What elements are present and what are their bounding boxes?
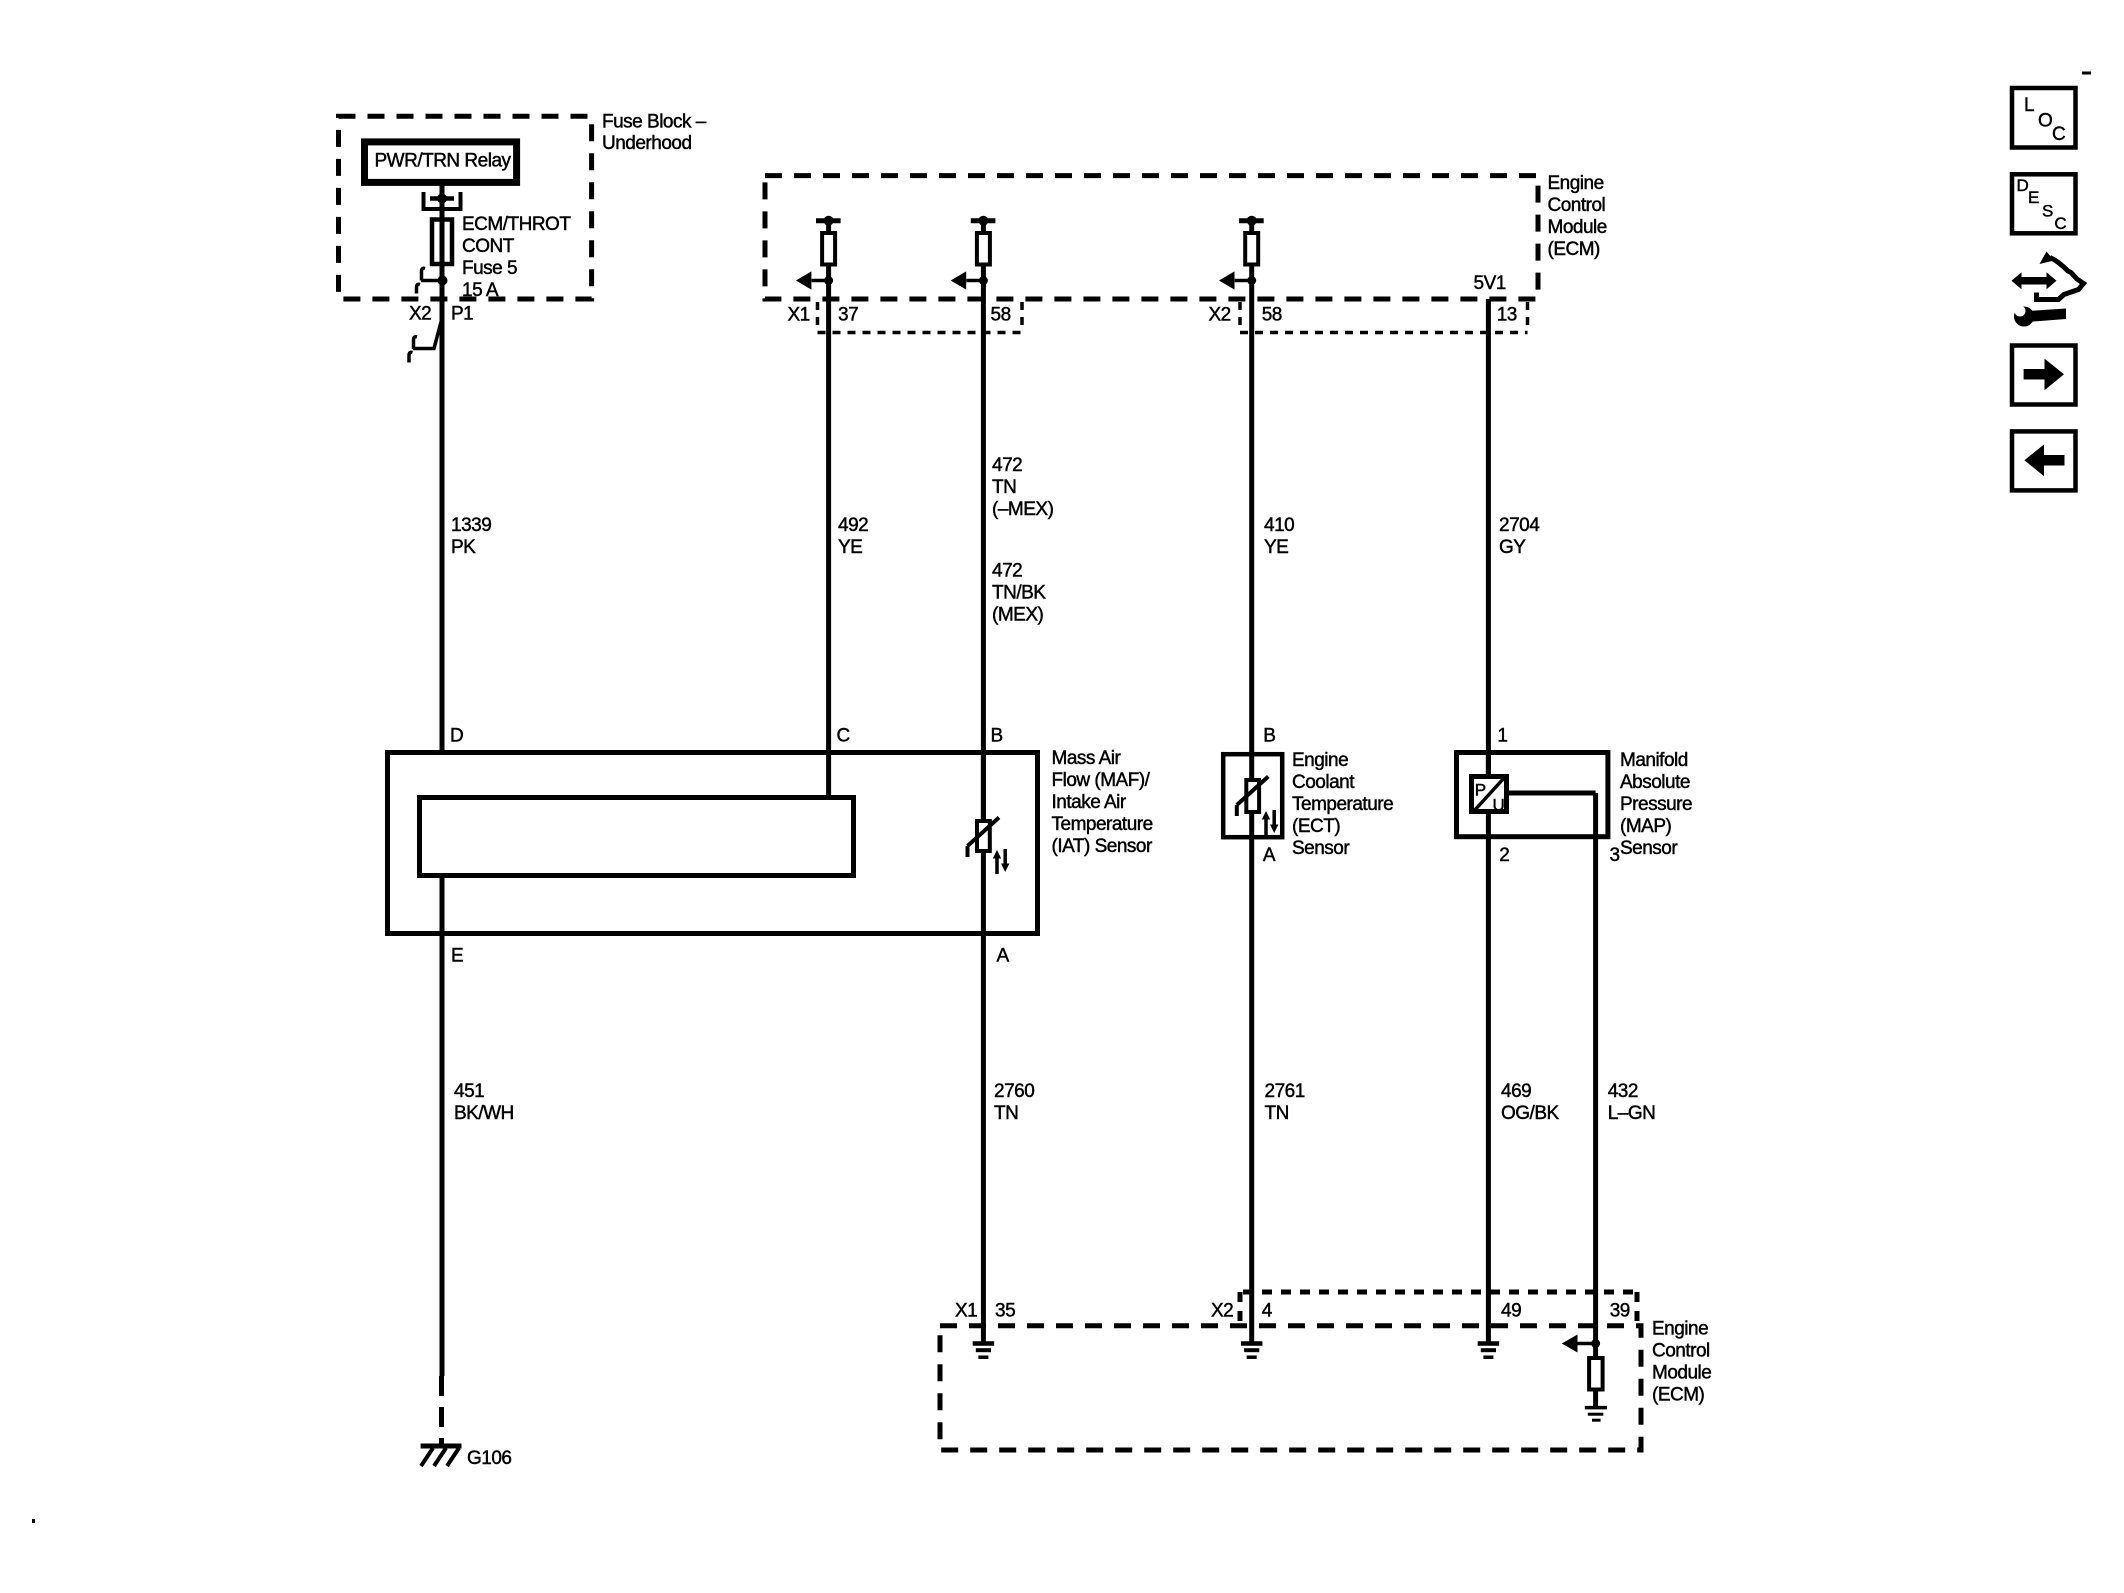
svg-text:Pressure: Pressure xyxy=(1620,794,1692,815)
svg-text:Module: Module xyxy=(1652,1363,1711,1384)
svg-text:Control: Control xyxy=(1548,195,1606,216)
svg-text:2704: 2704 xyxy=(1499,515,1540,536)
svg-text:Underhood: Underhood xyxy=(602,133,692,154)
svg-text:Flow (MAF)/: Flow (MAF)/ xyxy=(1052,770,1151,791)
svg-text:X1: X1 xyxy=(955,1301,977,1322)
svg-text:OG/BK: OG/BK xyxy=(1501,1103,1560,1124)
svg-text:Temperature: Temperature xyxy=(1052,814,1153,835)
wire 472 TN upper xyxy=(981,299,986,822)
svg-text:Sensor: Sensor xyxy=(1292,838,1350,859)
svg-text:(ECM): (ECM) xyxy=(1548,239,1601,260)
svg-text:L: L xyxy=(2024,95,2035,116)
svg-text:Engine: Engine xyxy=(1548,173,1604,194)
MAF inner connector bar xyxy=(420,798,854,876)
svg-text:Temperature: Temperature xyxy=(1292,794,1393,815)
svg-text:D: D xyxy=(2017,176,2029,195)
connector strip X1 under ECM xyxy=(816,302,820,331)
svg-text:S: S xyxy=(2042,202,2053,221)
fuse block underhood dashed box xyxy=(339,116,592,299)
ground at pin 4 xyxy=(1241,1341,1263,1346)
connector branch at fuse block exit xyxy=(421,279,442,283)
wire B inside MAF xyxy=(981,752,986,1343)
icon left arrow box xyxy=(2012,431,2076,490)
svg-text:2761: 2761 xyxy=(1265,1081,1305,1102)
svg-text:X2: X2 xyxy=(409,304,431,325)
svg-text:49: 49 xyxy=(1501,1301,1521,1322)
svg-text:Control: Control xyxy=(1652,1341,1710,1362)
connector hook upper at X2/P1 xyxy=(414,337,418,349)
svg-text:CONT: CONT xyxy=(462,236,515,257)
MAF/IAT sensor outer box xyxy=(388,753,1038,934)
ECM driver coil pin 58 X1 xyxy=(971,218,996,223)
svg-text:PK: PK xyxy=(451,537,476,558)
svg-text:YE: YE xyxy=(1264,537,1288,558)
svg-text:U: U xyxy=(1493,796,1505,815)
relay terminal bracket xyxy=(422,192,426,209)
icon double arrow wrench xyxy=(2020,277,2047,285)
svg-text:Fuse Block –: Fuse Block – xyxy=(602,112,707,133)
wire 492 YE xyxy=(826,299,831,798)
svg-text:15 A: 15 A xyxy=(462,280,499,301)
svg-text:(–MEX): (–MEX) xyxy=(992,499,1054,520)
svg-text:3: 3 xyxy=(1610,845,1620,866)
svg-text:Sensor: Sensor xyxy=(1620,838,1678,859)
svg-text:P1: P1 xyxy=(451,304,473,325)
MAP P/U transducer xyxy=(1472,777,1507,812)
connector hook lower xyxy=(417,284,421,293)
svg-text:YE: YE xyxy=(838,537,862,558)
svg-text:E: E xyxy=(2028,188,2039,207)
connector hook lower at X2/P1 xyxy=(409,352,413,362)
ECM driver coil pin 58 X2 xyxy=(1239,218,1264,223)
svg-text:472: 472 xyxy=(992,561,1022,582)
svg-text:C: C xyxy=(837,726,850,747)
svg-text:492: 492 xyxy=(838,515,868,536)
IAT up/down arrows xyxy=(995,857,999,874)
ground at pin 35 xyxy=(973,1341,995,1346)
svg-text:58: 58 xyxy=(991,305,1011,326)
relay PWR/TRN Relay xyxy=(365,142,517,183)
icon LOC box xyxy=(2012,88,2076,148)
ground below resistor xyxy=(1593,1389,1598,1406)
svg-text:G106: G106 xyxy=(467,1448,511,1469)
svg-text:Engine: Engine xyxy=(1292,750,1348,771)
svg-text:Mass Air: Mass Air xyxy=(1052,748,1122,769)
svg-text:Engine: Engine xyxy=(1652,1319,1708,1340)
svg-text:A: A xyxy=(997,946,1010,967)
svg-text:Manifold: Manifold xyxy=(1620,750,1688,771)
svg-text:B: B xyxy=(991,726,1003,747)
svg-text:37: 37 xyxy=(838,305,858,326)
svg-text:432: 432 xyxy=(1608,1081,1638,1102)
connector strip X2 under ECM xyxy=(1238,302,1242,331)
svg-text:X2: X2 xyxy=(1209,305,1231,326)
svg-text:5V1: 5V1 xyxy=(1474,273,1506,294)
MAP sensor box xyxy=(1457,753,1608,837)
svg-text:BK/WH: BK/WH xyxy=(454,1103,514,1124)
svg-text:1: 1 xyxy=(1497,726,1507,747)
svg-text:2760: 2760 xyxy=(994,1081,1034,1102)
svg-text:X1: X1 xyxy=(788,305,810,326)
svg-text:Intake Air: Intake Air xyxy=(1052,792,1127,813)
icon right arrow box xyxy=(2012,346,2076,405)
fuse F5 ECM/THROT CONT 15A xyxy=(432,220,452,265)
IAT thermistor xyxy=(977,821,990,851)
ECM driver coil pin 37 xyxy=(816,218,841,223)
svg-text:Absolute: Absolute xyxy=(1620,772,1690,793)
junction dot below fuse xyxy=(438,276,448,286)
svg-text:D: D xyxy=(450,726,463,747)
svg-text:TN: TN xyxy=(1265,1103,1289,1124)
svg-text:TN/BK: TN/BK xyxy=(992,583,1046,604)
connector leader diagonal at X2/P1 xyxy=(413,322,441,349)
ground at pin 49 xyxy=(1478,1341,1500,1346)
svg-text:13: 13 xyxy=(1497,305,1517,326)
svg-text:1339: 1339 xyxy=(451,515,491,536)
svg-text:C: C xyxy=(2054,214,2066,233)
connector strip X2 bottom xyxy=(1243,1290,1637,1295)
relay terminal crossbar and dot xyxy=(430,196,454,201)
svg-text:L–GN: L–GN xyxy=(1608,1103,1656,1124)
svg-text:(ECM): (ECM) xyxy=(1652,1385,1705,1406)
svg-text:X2: X2 xyxy=(1211,1301,1233,1322)
ground G106 xyxy=(421,1444,462,1449)
svg-text:4: 4 xyxy=(1262,1301,1273,1322)
svg-text:(ECT): (ECT) xyxy=(1292,816,1340,837)
wire 1339 PK down from fuse block xyxy=(440,281,445,752)
svg-text:451: 451 xyxy=(454,1081,484,1102)
svg-text:TN: TN xyxy=(994,1103,1018,1124)
icon DESC box xyxy=(2012,174,2076,233)
svg-text:469: 469 xyxy=(1501,1081,1531,1102)
MAP output wire to pin 3 xyxy=(1507,791,1596,796)
svg-text:(MEX): (MEX) xyxy=(992,605,1044,626)
svg-text:58: 58 xyxy=(1262,305,1282,326)
ECT sensor box xyxy=(1223,754,1282,837)
ECM bottom dashed box xyxy=(940,1326,1641,1450)
ECT up/down arrows xyxy=(1264,818,1268,835)
svg-text:Module: Module xyxy=(1548,217,1607,238)
svg-text:472: 472 xyxy=(992,455,1022,476)
svg-text:E: E xyxy=(451,946,463,967)
svg-text:39: 39 xyxy=(1610,1301,1630,1322)
ECT thermistor xyxy=(1246,780,1259,812)
svg-text:O: O xyxy=(2038,111,2053,132)
svg-text:ECM/THROT: ECM/THROT xyxy=(462,214,571,235)
arrow and junction at pin 39 xyxy=(1577,1342,1596,1346)
svg-text:B: B xyxy=(1263,726,1275,747)
svg-text:GY: GY xyxy=(1499,537,1526,558)
svg-text:2: 2 xyxy=(1499,845,1509,866)
artifact marks xyxy=(2082,72,2091,75)
svg-text:P: P xyxy=(1475,781,1486,800)
svg-text:Fuse 5: Fuse 5 xyxy=(462,258,517,279)
wire 2761 TN xyxy=(1249,812,1254,1343)
svg-text:(IAT) Sensor: (IAT) Sensor xyxy=(1052,836,1153,857)
wire 2704 GY xyxy=(1486,299,1491,777)
svg-text:TN: TN xyxy=(992,477,1016,498)
wire relay to fuse xyxy=(440,185,445,219)
wire 451 BK/WH from E xyxy=(440,878,445,1376)
svg-text:C: C xyxy=(2052,124,2066,145)
svg-text:410: 410 xyxy=(1264,515,1294,536)
svg-text:A: A xyxy=(1263,845,1276,866)
svg-text:PWR/TRN Relay: PWR/TRN Relay xyxy=(375,151,512,172)
wire 410 YE xyxy=(1249,299,1254,781)
svg-text:35: 35 xyxy=(995,1301,1015,1322)
dashed wire to G106 xyxy=(439,1376,444,1444)
svg-text:(MAP): (MAP) xyxy=(1620,816,1672,837)
ECM internal resistor at pin 39 xyxy=(1589,1358,1603,1390)
svg-text:Coolant: Coolant xyxy=(1292,772,1355,793)
connector hook upper xyxy=(422,268,426,280)
wire 469 through MAP xyxy=(1486,752,1491,1343)
ECM top dashed box xyxy=(765,176,1538,299)
